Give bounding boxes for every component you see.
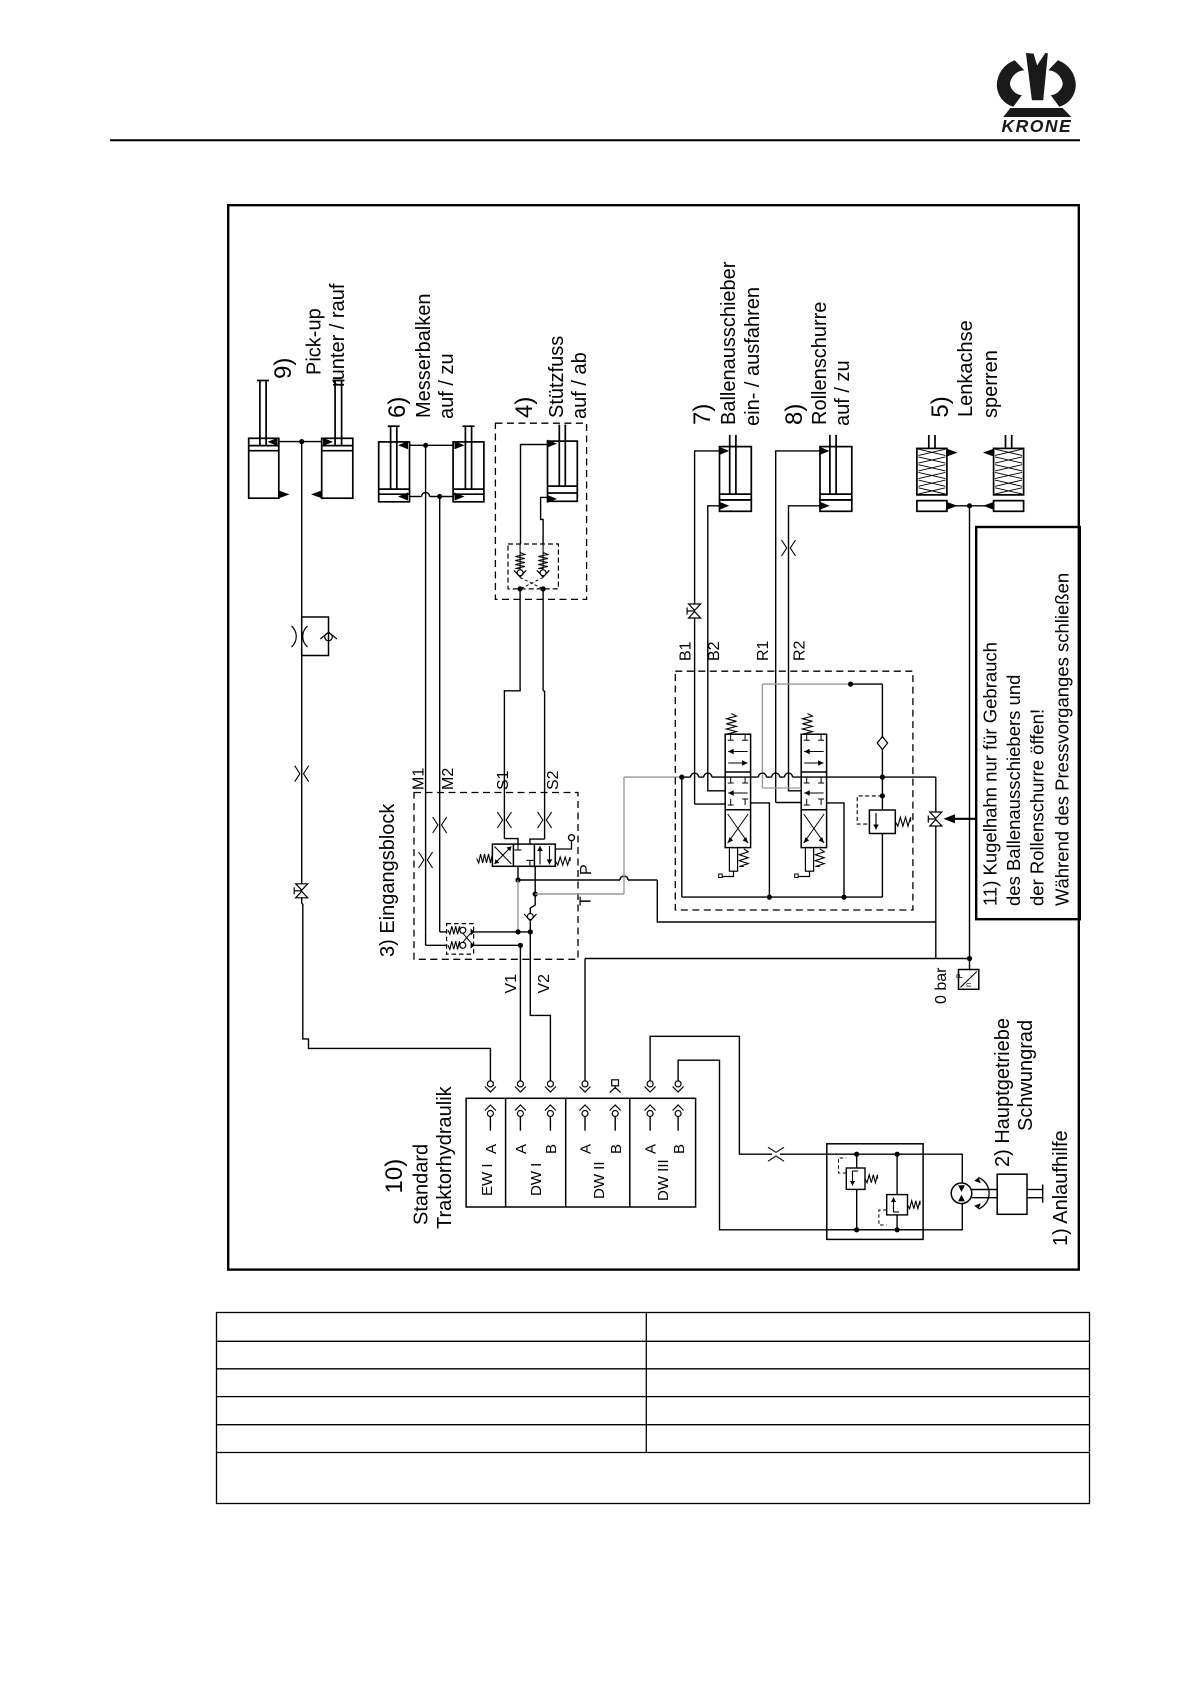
manual valve U3 in Eingangsblock [492,844,555,866]
coupling on R2 [782,540,787,556]
wire S2 to valve B port [530,839,545,844]
svg-text:4): 4) [511,397,538,418]
KRONE logo [997,53,1076,136]
port DW I B [547,1081,553,1087]
svg-text:S2: S2 [545,770,562,790]
svg-text:Ballenausschieber: Ballenausschieber [718,261,740,425]
svg-text:A: A [578,1144,595,1154]
pressure gauge 0 bar [969,959,971,970]
svg-text:1) Anlaufhilfe: 1) Anlaufhilfe [1050,1130,1072,1246]
spring cylinder 5 right (Lenkachse) [994,448,1024,494]
svg-text:R2: R2 [792,640,809,661]
wire R2 from cyl8 bottom [789,506,821,791]
wire M2 [439,497,441,793]
node accumulator junction [967,503,972,508]
pressure/return line lower [585,958,970,960]
cylinder 4 (Stuetzfuss) [548,441,578,501]
grey pilot from P down [517,880,519,932]
coupling on pick-up line [295,766,300,782]
directional valve DCV1 (Ballenausschieber) [725,734,750,847]
svg-text:M2: M2 [440,768,457,790]
coupling on S2 [544,793,546,840]
pilot-operated check valve (pick-up lowering lock) [302,617,329,656]
shock relief lower [448,941,460,949]
svg-text:5): 5) [927,396,954,417]
dashed box double pilot check valve [508,544,558,589]
svg-text:n: n [964,983,973,987]
svg-text:KRONE: KRONE [1001,116,1072,136]
rotation arrows [979,1178,990,1210]
svg-text:Rollenschurre: Rollenschurre [809,302,831,425]
wire check/relief branch [851,683,883,685]
wire 4 bottom port [541,497,548,544]
cylinder 9 right (Pick-up) [322,438,353,498]
wire pick-up to EW I A [302,897,491,1081]
wire manifold to pump top [923,1154,962,1183]
svg-text:Lenkachse: Lenkachse [955,320,977,417]
svg-text:Stützfuss: Stützfuss [546,336,568,418]
node T [533,891,538,896]
svg-text:Messerbalken: Messerbalken [413,293,435,418]
check valve S2 side [542,544,544,570]
pilot cross lines [520,578,543,589]
RV1 dashed pilot [839,1158,847,1173]
svg-text:9): 9) [270,358,297,379]
svg-text:0 bar: 0 bar [933,967,950,1004]
wire shock upper to V2 [474,931,531,933]
wire R1 from cyl8 top [776,451,820,803]
svg-text:DW I: DW I [528,1163,545,1196]
svg-text:S1: S1 [495,770,512,790]
grey main line segment [624,776,682,778]
node S2 box exit [541,586,546,591]
cylinder 7 (Ballenausschieber) [720,447,752,500]
svg-text:Schwungrad: Schwungrad [1015,1020,1037,1131]
svg-text:Während des Pressvorganges sch: Während des Pressvorganges schließen [1052,573,1073,906]
shock cross lines [463,933,471,942]
svg-text:DW II: DW II [591,1162,608,1200]
svg-text:V2: V2 [536,974,553,994]
cylinder 6 left (Messerbalken) [379,442,410,502]
svg-text:10): 10) [381,1159,408,1194]
node main relief join [880,775,885,780]
rail bottom [827,1229,923,1231]
wire P line to manifold [518,879,620,881]
note box 11 Kugelhahn [976,527,1080,919]
top rule [110,139,1080,141]
svg-text:A: A [483,1144,500,1154]
spring left of valve U3 [477,854,493,863]
dashed box Eingangsblock [414,793,578,960]
motor shaft [972,1189,997,1191]
svg-text:runter / rauf: runter / rauf [327,283,349,387]
svg-text:T: T [578,896,595,906]
gearbox Hauptgetriebe [997,1174,1027,1214]
node pilot junction [848,682,853,687]
hydraulic motor (Anlaufhilfe) [951,1183,972,1204]
wire S1 [504,589,520,793]
svg-text:A: A [643,1144,660,1154]
RV2 dashed pilot [879,1210,887,1225]
wire DCV2 tank stub [826,803,844,897]
coupling on S1 [503,793,505,839]
dashed box Stuetzfuss assembly [495,423,586,599]
wire B1 from cyl7 top [695,451,720,604]
svg-text:des Ballenausschiebers und: des Ballenausschiebers und [1003,675,1024,906]
node rv2 top [895,1152,900,1157]
wire V2 down to DW I B [530,932,550,1081]
node M2 junction [437,494,442,499]
dashed box shock valves [447,924,474,955]
node main-left [679,775,684,780]
svg-text:Traktorhydraulik: Traktorhydraulik [434,1085,456,1229]
svg-text:auf / ab: auf / ab [569,352,591,419]
svg-text:A: A [513,1144,530,1154]
node V2 upper [528,929,533,934]
dashed relief pilot [857,796,882,824]
svg-text:auf / zu: auf / zu [832,360,854,426]
ball valve on pick-up line [296,884,308,890]
svg-text:3) Eingangsblock: 3) Eingangsblock [377,803,399,957]
tractor block box [466,1098,695,1207]
wire accumulator line down [969,506,971,959]
svg-text:R1: R1 [755,640,772,661]
relief valve RV2 [896,1154,898,1194]
shock relief upper [448,926,460,934]
Kugelhahn 11 on pressure line [935,777,937,812]
port DW III B [675,1081,681,1087]
diagram border box [228,205,1079,1269]
node P [515,877,520,882]
svg-text:P: P [956,973,965,978]
wire below check valve [301,656,303,885]
wire 4 top port [521,445,548,545]
cylinder 8 (Rollenschurre) [820,447,852,500]
coupling on M2 [439,793,441,932]
wire S2 [542,589,544,691]
spring right of valve U3 [555,857,570,865]
node tank DCV2 [841,895,846,900]
wire DW II A [584,959,586,1081]
wire pick-up top ports [279,441,322,443]
wire shock lower to V1 [474,944,521,946]
svg-text:B: B [608,1144,625,1154]
check valve S1 side [519,544,521,570]
bottom table [217,1313,1090,1504]
check valve on V2 branch [530,894,535,914]
coupling on M1 [425,793,427,932]
flywheel stub [1027,1189,1043,1191]
node tank DCV1 [767,895,772,900]
wire accumulators bottom ports [947,505,994,507]
svg-text:sperren: sperren [980,350,1002,418]
node rv2 bottom [895,1227,900,1232]
relief valve RV1 [856,1154,858,1168]
svg-text:V1: V1 [503,974,520,994]
node V1 [518,943,523,948]
wire S1 to valve A port [504,839,518,845]
svg-text:EW I: EW I [479,1164,496,1197]
svg-text:11) Kugelhahn nur für Gebrauch: 11) Kugelhahn nur für Gebrauch [980,642,1001,906]
node rv1 top [854,1152,859,1157]
wire P from valve [517,866,519,880]
node gauge [967,956,972,961]
wire DCV1 tank stub [751,803,770,897]
wire DW III A to pump manifold [650,1036,772,1154]
cylinder 9 left (Pick-up) [249,438,279,498]
wire M1 [425,445,427,792]
spring cylinder 5 left (Lenkachse) [917,448,947,494]
svg-text:B1: B1 [678,641,695,661]
dashed box rear manifold [675,671,913,910]
svg-text:der Rollenschurre öffen!: der Rollenschurre öffen! [1027,709,1048,906]
wire collector [682,896,883,898]
svg-text:2) Hauptgetriebe: 2) Hauptgetriebe [992,1018,1014,1167]
pump relief manifold box [827,1144,923,1240]
svg-text:DW III: DW III [655,1159,672,1201]
port EW I A [487,1081,493,1087]
svg-text:8): 8) [781,404,808,425]
wire V1 down to DW I A [519,945,521,1081]
wire T from valve [534,866,536,894]
svg-text:Standard: Standard [411,1144,433,1225]
wire 6 bottom ports [410,496,422,498]
coupling on pump feed [768,1147,784,1152]
arrow note to ball valve [952,818,976,820]
wire collector left leg [681,777,683,897]
node pick-up junction [299,439,304,444]
svg-text:B: B [671,1144,688,1154]
rail top [827,1153,923,1155]
node relief pilot [880,793,885,798]
svg-text:7): 7) [689,404,716,425]
port DW I A [517,1081,523,1087]
ball valve on B1 [689,604,701,610]
svg-text:ein- / ausfahren: ein- / ausfahren [742,287,764,426]
grey T line [535,893,624,895]
wire DW III B to pump suction [678,1060,962,1230]
port DW II A [582,1081,588,1087]
lever knob of valve U3 [569,835,575,841]
check valve diamond [877,737,887,750]
main line across manifold [682,776,691,778]
svg-text:P: P [578,864,595,875]
port DW III A [647,1081,653,1087]
cylinder 6 right (Messerbalken) [453,442,484,502]
node M1 junction [423,443,428,448]
wire B2 from cyl7 bottom [708,506,725,791]
port DW II B plug [612,1080,619,1086]
node grey P join [515,929,520,934]
grey pilot line top [762,683,850,685]
svg-text:B: B [543,1144,560,1154]
wire M2 to shock box [440,931,447,933]
svg-text:auf / zu: auf / zu [436,353,458,419]
wire M1 to shock box [425,932,427,945]
svg-text:6): 6) [384,397,411,418]
directional valve DCV2 (Rollenschurre) [801,734,826,847]
node S1 box exit [518,586,523,591]
svg-text:M1: M1 [411,768,428,790]
relief valve rear manifold [869,810,895,834]
node rv1 bottom [854,1227,859,1232]
wire 6 top ports [410,444,454,446]
svg-text:Pick-up: Pick-up [304,308,326,375]
wire pick-up line down [301,442,303,617]
svg-text:B2: B2 [706,641,723,661]
